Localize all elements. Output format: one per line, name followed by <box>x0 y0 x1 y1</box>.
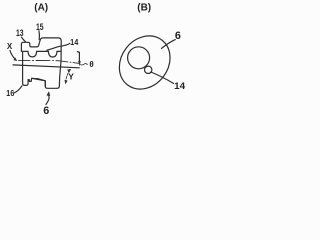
svg-text:6: 6 <box>175 30 181 42</box>
theta vertical arrow <box>77 51 79 54</box>
inner circle (fig B) <box>128 47 150 69</box>
shelf line mid <box>37 50 49 52</box>
shelf line left <box>21 50 28 52</box>
svg-text:14: 14 <box>174 81 186 92</box>
svg-text:14: 14 <box>70 37 78 47</box>
leader 15 <box>38 31 40 40</box>
shelf line right <box>57 50 61 52</box>
leader 13 <box>22 37 26 42</box>
svg-text:X: X <box>7 42 13 51</box>
leader theta <box>81 64 88 65</box>
arrow X <box>10 51 16 60</box>
dashed arrow Y <box>66 70 70 81</box>
arrow 6 fig A <box>46 96 49 105</box>
svg-text:Y: Y <box>68 71 74 81</box>
groove arc 2 <box>48 52 57 58</box>
leader 16 <box>14 86 22 93</box>
grommet body outline (fig A) <box>21 38 61 88</box>
svg-text:θ: θ <box>89 60 93 69</box>
svg-text:(A): (A) <box>34 3 48 14</box>
notch circle (fig B) <box>145 66 152 73</box>
bottom recess line <box>28 79 29 81</box>
leader 14 fig A <box>47 43 70 50</box>
svg-text:(B): (B) <box>137 3 151 14</box>
leader 6 fig B <box>162 40 176 49</box>
svg-text:16: 16 <box>6 88 14 98</box>
centerline bent right <box>58 61 79 64</box>
leader 14 fig B <box>151 72 174 83</box>
svg-text:6: 6 <box>43 105 49 117</box>
centerline (chain) <box>19 59 59 61</box>
outer circle (fig B) <box>109 26 181 99</box>
wire line <box>13 65 79 68</box>
svg-text:13: 13 <box>16 28 24 38</box>
svg-text:15: 15 <box>36 22 44 32</box>
groove arc 1 <box>28 52 37 57</box>
